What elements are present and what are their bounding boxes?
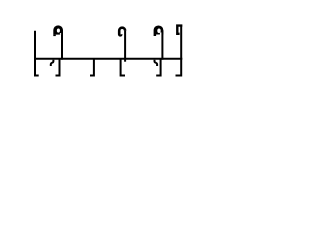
- top curl hook H3 on stud S3 (bold knob): [154, 25, 164, 34]
- hook H1 left leg tail: [53, 35, 56, 37]
- hook H3 hole: [157, 28, 160, 33]
- right leg L5 (stud S4 line) down with left foot: [176, 25, 182, 76]
- leg L3 below web with right foot: [121, 59, 125, 76]
- stud S1 above web: [61, 30, 63, 60]
- hook H1 hole: [57, 29, 60, 33]
- stud S3 above web: [161, 30, 163, 59]
- left wall with right foot: [34, 31, 39, 76]
- leg L4 below web with left foot: [156, 59, 160, 76]
- leg L1 below web with left foot: [56, 59, 60, 76]
- hook H3 left leg tail: [154, 35, 157, 37]
- hook H3 bottom-right notch: [160, 32, 162, 34]
- bottom curl B1 (S-curl, tail left): [51, 60, 54, 66]
- top curl hook H1 on stud S1 (bold knob): [53, 25, 63, 34]
- square top hook H4 on right leg: [177, 26, 182, 34]
- bottom curl B3 (S-curl, tail right): [155, 60, 158, 66]
- web (main horizontal rail): [34, 58, 182, 60]
- top curl hook H2 on stud S2: [119, 28, 125, 36]
- stud S2 with stub below web: [124, 31, 126, 62]
- middle leg L2 with left foot: [90, 59, 94, 76]
- hook H1 bottom-right notch: [60, 33, 61, 35]
